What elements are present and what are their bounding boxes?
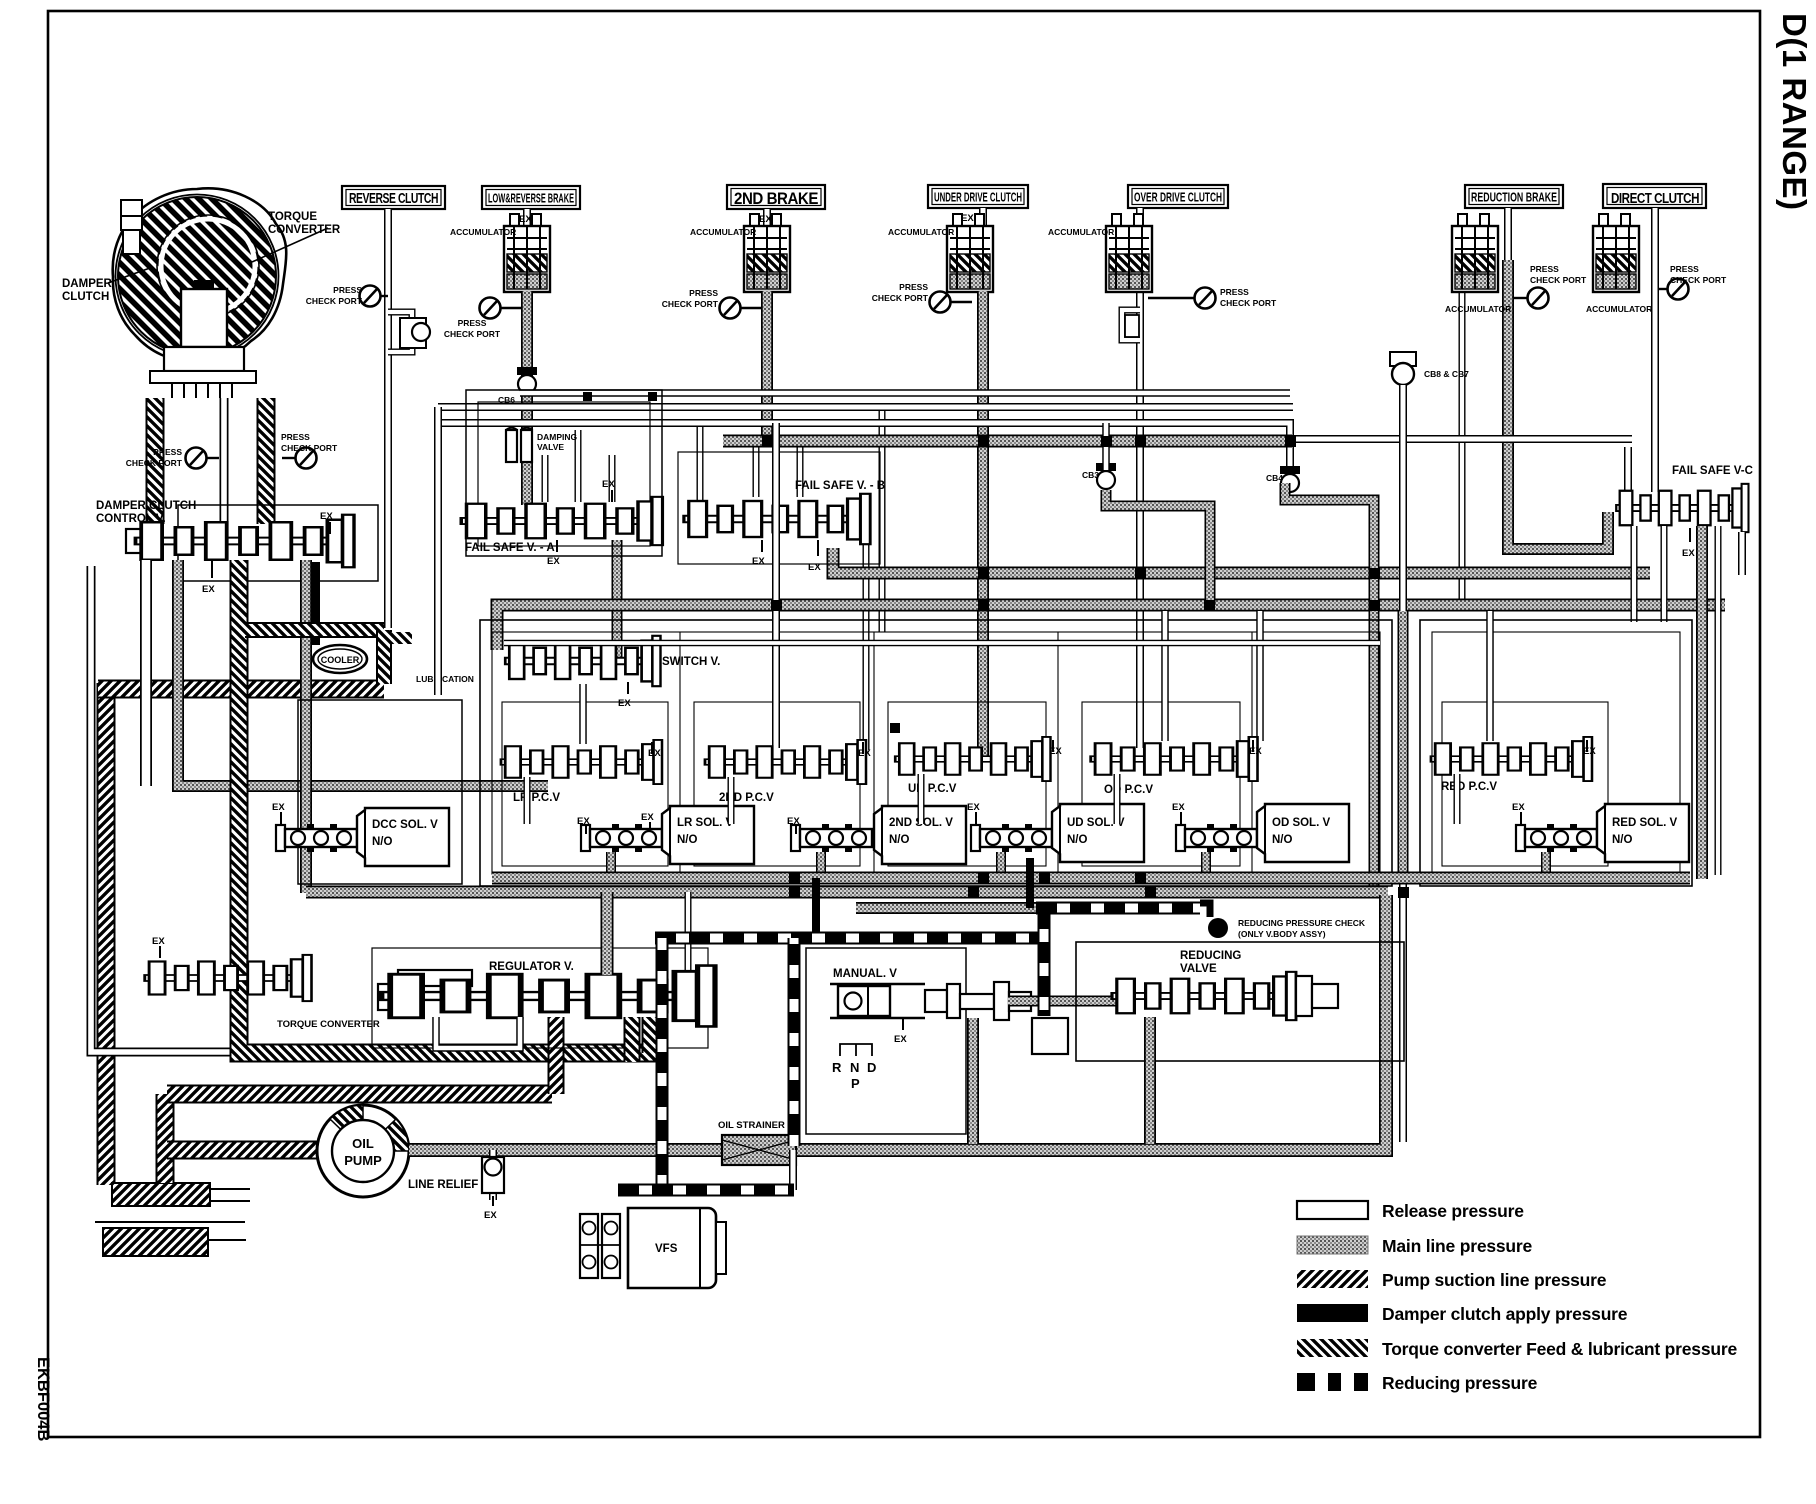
wire converter release center — [220, 398, 229, 524]
wire main line gray left — [178, 560, 548, 786]
wire low&reverse line — [523, 209, 531, 226]
wire switch to LR pcv — [579, 684, 587, 744]
svg-text:N: N — [850, 1060, 859, 1075]
svg-text:UD P.C.V: UD P.C.V — [908, 783, 957, 795]
svg-text:LR SOL. V: LR SOL. V — [677, 817, 734, 829]
reducing pressure check point — [1200, 903, 1366, 939]
legend damper clutch apply pressure — [1297, 1304, 1628, 1324]
OD solenoid valve — [1172, 802, 1349, 862]
legend pump suction line pressure — [1297, 1270, 1607, 1290]
legend torque converter feed — [1297, 1339, 1737, 1359]
wire regulator drain hatch — [548, 1017, 565, 1094]
box 2ND BRAKE — [727, 185, 825, 209]
wire fsv-a top connectors — [545, 430, 612, 502]
svg-text:PRESS: PRESS — [689, 288, 718, 298]
box REVERSE CLUTCH — [342, 186, 445, 209]
svg-text:Reducing pressure: Reducing pressure — [1382, 1373, 1538, 1393]
reduction valve group box — [1420, 620, 1692, 886]
svg-text:CHECK PORT: CHECK PORT — [126, 458, 183, 468]
wire reducing dashed valve feed — [1038, 908, 1051, 1016]
wire fsv-b right drops — [866, 410, 882, 750]
check ball CB4 — [1266, 466, 1300, 492]
VFS coil — [580, 1214, 620, 1278]
svg-text:EX: EX — [759, 214, 772, 225]
wire regulator tc feed riser — [642, 1017, 659, 1053]
svg-text:FAIL SAFE V. - B: FAIL SAFE V. - B — [795, 480, 885, 492]
EX below switch valve — [618, 682, 631, 709]
EX below fail safe B — [752, 540, 821, 573]
box LOW&REVERSE BRAKE — [482, 186, 580, 209]
wire white connector rail to dashed corner — [789, 1150, 797, 1190]
wire suction mid horizontal — [167, 1085, 552, 1104]
wire right enclosure drop — [1696, 526, 1708, 879]
oil pan upper bar — [112, 1183, 250, 1206]
svg-text:EX: EX — [152, 936, 165, 947]
RED solenoid valve — [1512, 802, 1689, 862]
DCC solenoid valve — [272, 802, 449, 866]
torque converter relief valve — [143, 936, 311, 1001]
svg-text:CB4: CB4 — [1266, 473, 1283, 483]
wire valve body top channels — [504, 640, 1380, 647]
svg-text:CONVERTER: CONVERTER — [268, 224, 341, 236]
legend main line pressure — [1297, 1236, 1533, 1256]
wire fail safe C tail — [1738, 532, 1746, 575]
svg-text:EX: EX — [320, 511, 333, 522]
svg-text:OD P.C.V: OD P.C.V — [1104, 784, 1153, 796]
svg-text:(ONLY V.BODY ASSY): (ONLY V.BODY ASSY) — [1238, 929, 1326, 939]
wire fsv-c white feed drop — [1624, 447, 1632, 505]
VFS body — [628, 1208, 726, 1288]
svg-text:EX: EX — [894, 1034, 907, 1045]
wire fsv-a to switch gray — [612, 540, 623, 664]
svg-text:PRESS: PRESS — [1670, 264, 1699, 274]
wire release channel left — [91, 566, 263, 1052]
svg-text:EX: EX — [1249, 746, 1262, 757]
LR pressure control valve — [500, 740, 662, 804]
svg-text:EX: EX — [648, 748, 661, 759]
EX right of damper control — [320, 511, 333, 534]
svg-text:EX: EX — [787, 816, 800, 827]
svg-text:Pump suction line pressure: Pump suction line pressure — [1382, 1270, 1607, 1290]
press check port (damper left) — [126, 447, 219, 469]
wire main line gray (damper to bottom) — [300, 560, 312, 893]
svg-text:EX: EX — [1512, 802, 1525, 813]
svg-text:TORQUE CONVERTER: TORQUE CONVERTER — [277, 1019, 380, 1030]
svg-text:ACCUMULATOR: ACCUMULATOR — [1445, 304, 1511, 314]
valve body outer box — [480, 620, 1392, 886]
turbine hub white block — [181, 280, 227, 347]
oil pan lower bar — [95, 1222, 246, 1256]
svg-text:D(1 RANGE): D(1 RANGE) — [1776, 13, 1813, 211]
wire main gray header G3 — [497, 605, 1725, 650]
wire reducing dashed top — [655, 932, 1043, 945]
svg-text:FAIL SAFE V. - A: FAIL SAFE V. - A — [465, 542, 555, 554]
damper clutch control valve enclosure — [178, 505, 378, 581]
wire header drop left — [434, 407, 442, 695]
svg-text:PRESS: PRESS — [899, 282, 928, 292]
svg-text:Release pressure: Release pressure — [1382, 1201, 1524, 1221]
wire manual to reducing gray — [1008, 996, 1118, 1007]
press check port (2nd brake) — [662, 288, 761, 319]
svg-text:EX: EX — [1583, 746, 1596, 757]
wire fsv-b top connectors — [756, 446, 800, 497]
svg-text:DCC SOL. V: DCC SOL. V — [372, 819, 438, 831]
svg-text:VFS: VFS — [655, 1243, 678, 1255]
svg-text:CHECK PORT: CHECK PORT — [1530, 275, 1587, 285]
reducing valve enclosure — [1076, 942, 1404, 1061]
svg-text:RED P.C.V: RED P.C.V — [1441, 781, 1497, 793]
UD solenoid valve — [967, 802, 1144, 862]
wire fsv-c bottom drops — [1634, 526, 1718, 875]
svg-text:SWITCH V.: SWITCH V. — [662, 656, 720, 668]
svg-text:OIL STRAINER: OIL STRAINER — [718, 1120, 785, 1131]
svg-text:2ND BRAKE: 2ND BRAKE — [734, 189, 818, 208]
EX right of RED pcv — [1583, 740, 1596, 757]
fail safe valve B enclosure — [678, 452, 880, 564]
group divider lines — [679, 632, 681, 874]
svg-text:N/O: N/O — [677, 834, 698, 846]
fail safe valve A — [460, 497, 663, 554]
torque converter hatched disk — [118, 197, 276, 355]
wire cooler return to pan — [97, 683, 116, 1185]
svg-text:EX: EX — [967, 802, 980, 813]
svg-text:EX: EX — [547, 556, 560, 567]
wire reducing riser black — [1026, 858, 1034, 908]
svg-text:PRESS: PRESS — [281, 432, 310, 442]
svg-text:DAMPER: DAMPER — [62, 278, 113, 290]
box REDUCTION BRAKE — [1465, 185, 1563, 208]
check ball CB6 — [498, 367, 537, 405]
RED pressure control valve — [1430, 737, 1592, 793]
EX right of OD pcv — [1249, 740, 1262, 757]
wire od pcv feeds — [1165, 611, 1260, 741]
svg-text:N/O: N/O — [1612, 834, 1633, 846]
EX above fail safe A — [602, 479, 615, 502]
damping valve — [506, 428, 578, 462]
svg-text:EX: EX — [961, 213, 974, 224]
cooler bubble — [313, 645, 367, 673]
svg-text:OD SOL. V: OD SOL. V — [1272, 817, 1330, 829]
wire lubrication horizontal — [98, 680, 384, 699]
press check port (reduction brake) — [1513, 264, 1587, 309]
oil strainer — [718, 1120, 796, 1165]
wire damper apply black — [312, 562, 320, 645]
svg-text:LOW&REVERSE BRAKE: LOW&REVERSE BRAKE — [488, 191, 574, 206]
legend reducing pressure — [1297, 1373, 1538, 1393]
bypass orifice valve on reverse line — [388, 312, 430, 352]
wire direct clutch line — [1651, 208, 1659, 492]
EX below fail safe C — [1682, 528, 1695, 559]
wire converter feed left — [146, 398, 165, 524]
svg-text:EX: EX — [1049, 746, 1062, 757]
manual valve — [830, 968, 1031, 1020]
svg-text:CHECK PORT: CHECK PORT — [872, 293, 929, 303]
2ND pressure control valve — [704, 740, 866, 804]
EX below fail safe A — [547, 540, 560, 567]
wire reducing dashed vfs branch — [656, 938, 669, 1186]
svg-text:CLUTCH: CLUTCH — [62, 291, 109, 303]
wire reducing dashed mid — [1036, 902, 1200, 915]
svg-text:N/O: N/O — [1067, 834, 1088, 846]
wire main rail R2 — [306, 886, 1388, 899]
wire main gray header G1 — [723, 435, 1292, 448]
damping valve enclosure — [466, 390, 662, 556]
junction blocks — [583, 392, 1409, 898]
reducing valve — [1110, 950, 1338, 1020]
accumulator (reduction brake) — [1452, 214, 1498, 292]
svg-text:PRESS: PRESS — [333, 285, 362, 295]
wire pcv drop stubs — [527, 774, 1457, 824]
box DIRECT CLUTCH — [1603, 184, 1706, 208]
wire solenoid feed stubs — [611, 852, 1546, 880]
svg-text:LINE RELIEF: LINE RELIEF — [408, 1179, 478, 1191]
svg-text:RED SOL. V: RED SOL. V — [1612, 817, 1678, 829]
svg-text:N/O: N/O — [889, 834, 910, 846]
torque converter outer shell — [113, 188, 287, 361]
svg-text:CB8 & CB7: CB8 & CB7 — [1424, 369, 1469, 379]
oil pan to suction connector — [156, 1094, 175, 1183]
svg-text:EX: EX — [272, 802, 285, 813]
fail safe valve C — [1615, 465, 1753, 532]
reducing outlet box — [1032, 1018, 1068, 1054]
wire regulator right feed — [685, 892, 692, 972]
svg-text:DIRECT CLUTCH: DIRECT CLUTCH — [1611, 191, 1699, 207]
accumulator (2nd brake) — [744, 214, 790, 292]
wire reducing dashed left — [788, 938, 801, 1146]
wire main line from pump — [409, 895, 1386, 1150]
svg-text:D: D — [867, 1060, 876, 1075]
svg-text:CHECK PORT: CHECK PORT — [444, 329, 501, 339]
converter neck assembly — [150, 347, 256, 398]
svg-text:COOLER: COOLER — [321, 655, 360, 665]
shifter R N D P — [832, 1044, 876, 1091]
svg-text:EX: EX — [808, 562, 821, 573]
svg-text:EX: EX — [1172, 802, 1185, 813]
svg-text:EX: EX — [519, 214, 532, 225]
EX right of 2ND pcv — [858, 742, 871, 759]
press check port (low&reverse) — [444, 298, 521, 340]
wire converter feed right — [257, 398, 276, 524]
oil pump — [317, 1105, 409, 1197]
wire CB3 riser — [1102, 423, 1110, 470]
check ball CB3 — [1082, 463, 1116, 489]
press check port (reverse) — [306, 285, 388, 307]
switch valve — [504, 636, 720, 686]
wire reduction brake line — [1504, 208, 1512, 262]
svg-text:FAIL SAFE V-C: FAIL SAFE V-C — [1672, 465, 1753, 477]
svg-text:VALVE: VALVE — [1180, 963, 1217, 975]
svg-text:Torque converter Feed & lubric: Torque converter Feed & lubricant pressu… — [1382, 1339, 1737, 1359]
UD pressure control valve — [894, 737, 1051, 795]
wire reducing valve drop gray — [1144, 1017, 1156, 1144]
svg-text:ACCUMULATOR: ACCUMULATOR — [888, 227, 954, 237]
svg-text:OIL: OIL — [352, 1136, 374, 1151]
wire regulator feed gray — [601, 892, 614, 975]
press check port (damper right) — [281, 432, 338, 469]
svg-text:Damper clutch apply pressure: Damper clutch apply pressure — [1382, 1304, 1628, 1324]
regulator valve — [378, 961, 715, 1026]
regulator enclosure — [372, 948, 708, 1048]
manual valve enclosure — [806, 948, 966, 1134]
label torque converter — [252, 211, 341, 262]
svg-text:TORQUE: TORQUE — [268, 211, 317, 223]
wire CB3 branch — [1106, 490, 1210, 605]
accumulator (low&reverse) — [504, 214, 550, 292]
accumulator (over drive) — [1106, 214, 1152, 292]
EX below manual valve — [894, 1018, 907, 1045]
svg-text:LUBRICATION: LUBRICATION — [416, 674, 474, 684]
svg-text:REGULATOR V.: REGULATOR V. — [489, 961, 574, 973]
svg-text:2ND P.C.V: 2ND P.C.V — [719, 792, 774, 804]
wire manual valve outlet gray — [967, 1018, 979, 1144]
wire CB4 branch — [1285, 483, 1374, 888]
damper clutch ring inside converter — [161, 219, 255, 313]
wire release header 0 — [520, 389, 1290, 397]
wire main line from damper valve (left) — [140, 560, 152, 786]
wire reverse clutch line — [384, 209, 392, 628]
svg-text:N/O: N/O — [372, 836, 393, 848]
svg-text:CHECK PORT: CHECK PORT — [281, 443, 338, 453]
label damper clutch — [62, 268, 150, 303]
wire 2nd brake line — [763, 209, 771, 226]
svg-text:EX: EX — [752, 556, 765, 567]
svg-text:EKBF004B: EKBF004B — [34, 1357, 52, 1441]
svg-text:ACCUMULATOR: ACCUMULATOR — [1048, 227, 1114, 237]
wire fsv-b left feed — [697, 427, 704, 500]
box OVER DRIVE CLUTCH — [1128, 185, 1228, 208]
wire torque feed down-left — [239, 560, 660, 1053]
svg-text:ACCUMULATOR: ACCUMULATOR — [690, 227, 756, 237]
svg-text:EX: EX — [484, 1210, 497, 1221]
svg-text:REVERSE CLUTCH: REVERSE CLUTCH — [349, 191, 438, 207]
svg-text:CHECK PORT: CHECK PORT — [662, 299, 719, 309]
svg-text:LR P.C.V: LR P.C.V — [513, 792, 560, 804]
svg-text:CHECK PORT: CHECK PORT — [1670, 275, 1727, 285]
svg-text:CONTROL V.: CONTROL V. — [96, 513, 166, 525]
wire main rail R3 — [856, 902, 1036, 914]
EX right of UD pcv — [1049, 740, 1062, 757]
svg-text:EX: EX — [1682, 548, 1695, 559]
svg-text:EX: EX — [577, 816, 590, 827]
line relief valve — [408, 1150, 504, 1221]
legend release pressure — [1297, 1201, 1524, 1221]
wire over drive line — [1136, 208, 1144, 748]
svg-text:PRESS: PRESS — [153, 447, 182, 457]
group inner boxes — [502, 702, 1608, 866]
accumulator (under drive) — [947, 214, 993, 292]
fail safe valve B — [682, 480, 885, 544]
svg-text:EX: EX — [618, 698, 631, 709]
damper piston stack — [121, 200, 142, 254]
svg-text:EX: EX — [858, 748, 871, 759]
svg-text:REDUCING PRESSURE CHECK: REDUCING PRESSURE CHECK — [1238, 918, 1366, 928]
svg-text:CHECK PORT: CHECK PORT — [1220, 298, 1277, 308]
wire regulator drain loop — [436, 1017, 520, 1048]
svg-text:MANUAL. V: MANUAL. V — [833, 968, 897, 980]
svg-text:DAMPING: DAMPING — [537, 432, 578, 442]
svg-text:PUMP: PUMP — [344, 1153, 382, 1168]
svg-text:R: R — [832, 1060, 842, 1075]
OD pressure control valve — [1089, 737, 1257, 796]
damper clutch control valve — [126, 515, 354, 568]
EX right of LR pcv — [648, 742, 661, 759]
svg-text:CB3: CB3 — [1082, 470, 1099, 480]
svg-text:DAMPER CLUTCH: DAMPER CLUTCH — [96, 500, 196, 512]
label damper clutch control v. — [96, 500, 196, 525]
wire under drive line — [979, 208, 987, 226]
svg-text:REDUCING: REDUCING — [1180, 950, 1241, 962]
LR solenoid valve — [577, 806, 754, 864]
svg-text:PRESS: PRESS — [1530, 264, 1559, 274]
wire damper apply drop — [812, 878, 820, 940]
wire release header to FSV-C — [1290, 435, 1632, 443]
svg-text:ACCUMULATOR: ACCUMULATOR — [450, 227, 516, 237]
wire reduction main feed gray — [1508, 260, 1608, 549]
wire pump suction inlet — [167, 1141, 320, 1160]
svg-text:ACCUMULATOR: ACCUMULATOR — [1586, 304, 1652, 314]
check ball CB8 and CB7 — [1390, 352, 1469, 385]
box UNDER DRIVE CLUTCH — [928, 185, 1028, 208]
accumulator (direct clutch) — [1593, 214, 1639, 292]
svg-text:PRESS: PRESS — [458, 318, 487, 328]
wire 2nd brake main feed down — [761, 291, 773, 446]
wire regulator tc outlet hatch — [624, 1017, 641, 1062]
press check port (over drive) — [1148, 287, 1277, 309]
svg-text:EX: EX — [202, 584, 215, 595]
svg-text:REDUCTION BRAKE: REDUCTION BRAKE — [1471, 190, 1557, 205]
wire red pcv feed — [1486, 611, 1494, 741]
svg-text:OVER DRIVE CLUTCH: OVER DRIVE CLUTCH — [1134, 190, 1222, 205]
press check port (under drive) — [872, 282, 972, 313]
wire reduction acc drop — [1459, 293, 1466, 611]
cooler hatched jacket — [245, 630, 412, 684]
svg-text:Main line pressure: Main line pressure — [1382, 1236, 1533, 1256]
dcc solenoid group box — [298, 700, 462, 884]
wire main rail R1 — [492, 872, 1690, 885]
small jog on over drive line — [1122, 310, 1140, 340]
svg-text:CHECK PORT: CHECK PORT — [306, 296, 363, 306]
wire main gray header G2 — [833, 548, 1650, 573]
wire under drive main feed down — [977, 291, 989, 762]
wire release header 1 — [438, 403, 1293, 411]
svg-text:PRESS: PRESS — [1220, 287, 1249, 297]
press check port (direct clutch) — [1658, 264, 1727, 300]
wire CB8 gray mid segment — [1398, 611, 1409, 880]
wire reducing dashed vfs bottom — [618, 1184, 794, 1197]
svg-text:VALVE: VALVE — [537, 442, 564, 452]
wire release header 2 — [438, 423, 1290, 472]
wire 2nd feed drop — [772, 423, 780, 748]
EX below damper control — [202, 560, 215, 595]
svg-text:N/O: N/O — [1272, 834, 1293, 846]
2ND solenoid valve — [787, 806, 966, 864]
svg-text:EX: EX — [641, 812, 654, 823]
svg-text:UNDER DRIVE CLUTCH: UNDER DRIVE CLUTCH — [934, 190, 1022, 205]
wire CB8 drop line — [1399, 385, 1407, 1142]
svg-text:EX: EX — [602, 479, 615, 490]
svg-text:P: P — [851, 1076, 860, 1091]
wire low&reverse main feed down — [521, 291, 533, 505]
